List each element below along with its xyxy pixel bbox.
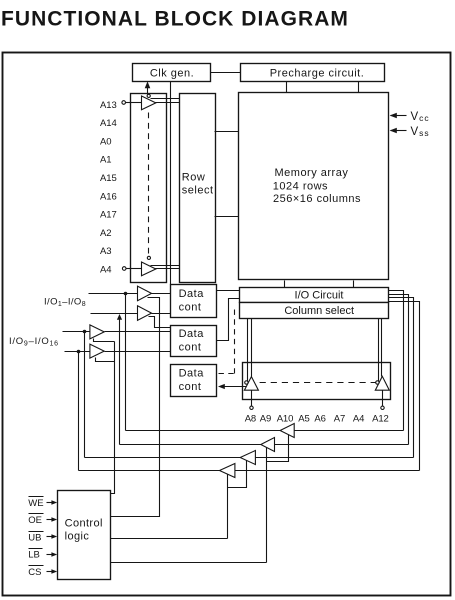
svg-text:A14: A14 [100, 118, 117, 129]
wire bus4 bottom horizontal [79, 470, 420, 472]
wire CS input [47, 571, 53, 573]
bubble on A4 buffer top [147, 256, 150, 259]
wire buffer3 bottom tap [94, 339, 115, 342]
terminal circle A8 [250, 406, 253, 409]
wire row select to memory lower [215, 216, 239, 218]
junction dot I/O9-16 lower [77, 350, 81, 354]
svg-text:Vcc: Vcc [411, 111, 430, 123]
svg-text:LB: LB [28, 550, 40, 561]
wire A4 buffer output lower [155, 268, 180, 270]
svg-text:Column select: Column select [284, 305, 354, 317]
svg-text:A15: A15 [100, 173, 117, 184]
svg-text:cont: cont [179, 342, 202, 354]
wire precharge to memory array left connector [286, 82, 288, 93]
box Data cont 1 [171, 285, 217, 318]
svg-text:I/O9–I/O16: I/O9–I/O16 [9, 336, 59, 348]
svg-text:A6: A6 [314, 414, 325, 425]
svg-text:A10: A10 [277, 414, 294, 425]
arrowhead up into I/O1-8 lower line [117, 314, 122, 320]
arrowhead UB [51, 534, 57, 539]
box Precharge circuit. [241, 64, 385, 82]
wire A12 terminal stem [382, 391, 384, 407]
svg-text:cont: cont [179, 301, 202, 313]
svg-text:Memory array: Memory array [275, 167, 349, 179]
wire Vcc arrow line [391, 115, 407, 117]
svg-text:A17: A17 [100, 210, 117, 221]
arrowhead Vss [390, 128, 397, 133]
wire I/O1-8 upper drop to bus1 [125, 294, 127, 431]
svg-text:A13: A13 [100, 100, 117, 111]
svg-text:logic: logic [65, 531, 90, 543]
svg-text:CS: CS [28, 567, 41, 578]
wire buffer2 bottom tap to data cont 2 [149, 317, 171, 328]
wire control output 3 horizontal [111, 562, 267, 564]
svg-text:Data: Data [179, 288, 205, 300]
wire A8 terminal stem [251, 391, 253, 407]
svg-text:A9: A9 [260, 414, 271, 425]
svg-text:A12: A12 [372, 414, 389, 425]
wire memory to I/O circuit left connector [284, 281, 286, 288]
wire bus2 right wrap [389, 295, 409, 445]
wire A13 buffer output upper [151, 98, 180, 100]
wire WE input [47, 502, 53, 504]
buffer I/O1-8 upper [138, 286, 152, 301]
wire bus1 right wrap [389, 291, 404, 431]
wire OE input [47, 519, 53, 521]
svg-text:A16: A16 [100, 191, 117, 202]
svg-text:I/O1–I/O8: I/O1–I/O8 [44, 296, 86, 308]
wire driver T3 enable path [228, 460, 247, 488]
box Control logic [58, 491, 111, 580]
wire buffer4 output to data cont 2 [105, 351, 171, 353]
wire buffer1 enable to control logic [111, 298, 160, 517]
arrowhead into clk gen [145, 81, 151, 88]
wire driver T4 enable riser [227, 473, 229, 539]
box column driver pair enclosure [243, 363, 391, 400]
wire data cont 1 to I/O circuit [217, 290, 240, 292]
bubble on right up-triangle slope [376, 381, 379, 384]
arrowhead into data cont 3 [218, 384, 225, 389]
wire I/O1-8 lower drop to bus2 [119, 319, 121, 445]
dashed line between up-triangle bubbles [249, 382, 376, 384]
svg-text:A0: A0 [100, 136, 112, 147]
buffer bus driver T3 (left) [240, 451, 255, 465]
box Data cont 2 [171, 326, 217, 357]
wire Vss arrow line [391, 130, 407, 132]
arrowhead OE [51, 517, 57, 522]
svg-text:A4: A4 [100, 264, 112, 275]
wire I/O1-8 pad line upper [89, 293, 138, 295]
svg-text:A7: A7 [334, 414, 345, 425]
wire clkgen down to data cont 1 [170, 82, 172, 285]
box Column select [240, 303, 389, 319]
arrowhead Vcc [390, 113, 397, 118]
wire I/O9-16 pad line upper [63, 331, 90, 333]
svg-text:A8: A8 [245, 414, 256, 425]
wire column select to left up-triangle pair A [247, 319, 249, 385]
buffer I/O9-16 lower [90, 344, 104, 358]
wire UB input [47, 536, 53, 538]
svg-text:A5: A5 [298, 414, 309, 425]
buffer bus driver T2 (left) [261, 438, 275, 452]
wire up-triangle to data cont 3 arrow line [220, 386, 247, 388]
svg-text:A4: A4 [353, 414, 364, 425]
wire control output 2 horizontal [111, 538, 228, 540]
svg-text:Data: Data [179, 367, 205, 379]
junction dot I/O9-16 upper [83, 330, 87, 334]
wire column select to left up-triangle pair B [251, 319, 253, 377]
wire clkgen-precharge [211, 72, 241, 74]
buffer I/O9-16 upper [90, 325, 104, 339]
wire LB input [47, 554, 53, 556]
dashed column select tap horizontal to data cont 3 [219, 373, 235, 375]
svg-text:select: select [182, 184, 214, 196]
dashed column select tap vertical [234, 310, 236, 374]
box Row select [180, 94, 216, 283]
box Clk gen. [133, 64, 211, 82]
wire row select to memory upper [215, 131, 239, 133]
terminal circle A13 [122, 101, 126, 105]
buffer A13 input [142, 96, 156, 110]
bubble on left up-triangle slope [245, 381, 248, 384]
wire A13 buffer output lower [155, 102, 180, 104]
svg-text:FUNCTIONAL BLOCK DIAGRAM: FUNCTIONAL BLOCK DIAGRAM [1, 8, 349, 31]
buffer bus driver T4 (left) [220, 464, 235, 478]
bubble on A13 buffer top [147, 94, 150, 97]
wire column select to right up-triangle pair A [378, 319, 380, 385]
wire I/O1-8 pad line lower [91, 313, 138, 315]
wire column select to right up-triangle pair B [381, 319, 383, 377]
wire A4 input [127, 268, 142, 270]
svg-text:OE: OE [28, 515, 42, 526]
svg-text:Data: Data [179, 328, 205, 340]
wire driver T2/T1 shared enable riser [266, 447, 268, 563]
svg-text:Vss: Vss [411, 126, 430, 138]
terminal circle A12 [381, 406, 384, 409]
wire I/O9-16 upper drop to bus3 [84, 332, 86, 458]
svg-text:cont: cont [179, 381, 202, 393]
wire driver T1 enable path [267, 434, 289, 462]
wire data cont 2 to I/O circuit [217, 299, 240, 341]
wire buffer1 output to data cont 1 [152, 293, 171, 295]
svg-text:I/O Circuit: I/O Circuit [295, 290, 344, 302]
svg-text:1024 rows: 1024 rows [273, 180, 328, 192]
svg-text:Control: Control [65, 517, 103, 529]
box Memory array [239, 93, 389, 280]
svg-text:UB: UB [28, 532, 41, 543]
buffer A4 input [142, 262, 156, 276]
wire bus3 bottom horizontal [85, 457, 414, 459]
dashed repeat line in address buffer box [148, 113, 150, 255]
wire buffer clock up-arrow into clk gen [147, 85, 149, 95]
svg-text:A1: A1 [100, 155, 112, 166]
svg-text:WE: WE [28, 498, 43, 509]
wire buffer3 output to data cont 2 [105, 331, 171, 333]
wire memory to I/O circuit right connector [353, 281, 355, 288]
wire bus1 bottom horizontal [126, 430, 404, 432]
svg-text:256×16 columns: 256×16 columns [273, 193, 361, 205]
buffer I/O1-8 lower [138, 306, 152, 321]
box Data cont 3 [171, 365, 217, 397]
buffer bus driver T1 (left) [280, 424, 294, 438]
wire buffer4 bottom tap [96, 358, 115, 362]
wire I/O9-16 pad line lower [65, 351, 90, 353]
wire A4 buffer output upper [151, 265, 180, 267]
svg-text:Row: Row [182, 171, 206, 183]
svg-text:A3: A3 [100, 246, 112, 257]
terminal circle A4 [122, 267, 126, 271]
svg-text:Clk gen.: Clk gen. [150, 67, 194, 79]
buffer column driver left (up) [244, 377, 258, 391]
wire A13 input [126, 102, 142, 104]
box address input buffers [131, 94, 167, 283]
svg-text:Precharge circuit.: Precharge circuit. [270, 67, 365, 79]
wire buffer2 output to data cont 1 [152, 313, 171, 315]
wire merged tap down into control logic [111, 342, 115, 494]
box I/O Circuit [240, 288, 389, 303]
wire precharge to memory array right connector [358, 82, 360, 93]
arrowhead CS [51, 569, 57, 574]
wire bus2 bottom horizontal [120, 444, 409, 446]
arrowhead LB [51, 552, 57, 557]
svg-text:A2: A2 [100, 228, 112, 239]
buffer column driver right (up) [375, 376, 389, 390]
wire I/O9-16 lower drop to bus4 [78, 352, 80, 471]
wire bus3 right wrap [389, 298, 414, 458]
wire bus4 right wrap [389, 302, 420, 471]
junction dot I/O1-8 upper [124, 292, 128, 296]
arrowhead WE [51, 500, 57, 505]
